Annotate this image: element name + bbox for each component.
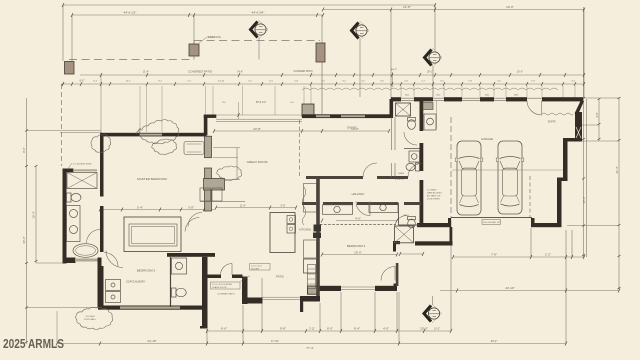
witness vertical x436 entry nook (436, 101, 438, 129)
witness x238 greatroom (238, 102, 240, 119)
window bedroom2 south glass (341, 287, 375, 290)
svg-text:21'-4": 21'-4" (143, 71, 149, 74)
door arc bedroom2 (381, 267, 395, 281)
extension east y125 (582, 124, 599, 126)
witness x392 band (392, 72, 394, 87)
dim line right vertical second (586, 99, 588, 257)
kitchen counter mid (304, 240, 317, 258)
witness line left y307 (27, 307, 99, 309)
wall garage south east (531, 223, 562, 227)
closet shelving inner (132, 227, 175, 244)
svg-text:44'-6 3/4": 44'-6 3/4" (252, 11, 265, 15)
powder toilet (172, 288, 177, 297)
wall bath southwest jog (63, 258, 76, 264)
bath2 sink east (380, 204, 386, 210)
svg-text:12'-2: 12'-2 (126, 81, 132, 83)
svg-text:5'-8 x 9'-2: 5'-8 x 9'-2 (395, 179, 405, 181)
dashed kitchen divider (299, 120, 301, 176)
window hatch dining north 1 (316, 115, 330, 117)
dashed property line left (61, 84, 63, 166)
window hatch master north (140, 134, 162, 136)
extension south x531 (530, 228, 532, 257)
wall kitchen east (316, 177, 320, 296)
ticks top dim (62, 3, 585, 17)
svg-text:5'-8": 5'-8" (281, 205, 286, 208)
svg-text:16'-0": 16'-0" (506, 5, 514, 9)
wall master west seg1 (100, 134, 104, 197)
svg-text:A/C PADS ON: A/C PADS ON (427, 195, 441, 198)
window hatch laundry south (120, 306, 180, 308)
door arc bath interior (404, 132, 417, 145)
bath lower toilet (416, 163, 420, 171)
witness line master y132 (60, 132, 102, 134)
dim line left vertical outer (26, 98, 28, 344)
bath lower sink cabinet (409, 151, 420, 162)
svg-text:PATIO: PATIO (276, 275, 284, 279)
wall garage east lower (557, 181, 562, 227)
garage door label box (482, 220, 501, 225)
wall bedroom2 east (396, 263, 399, 286)
svg-text:40'-2": 40'-2" (491, 339, 498, 343)
svg-text:12'-0 x 8'-0 SLIDING: 12'-0 x 8'-0 SLIDING (212, 284, 232, 286)
svg-text:3'-8": 3'-8" (188, 206, 194, 210)
wall master west seg3 (100, 266, 104, 307)
dashed garage interior line (529, 176, 531, 218)
dim line patio band lower (61, 83, 584, 85)
svg-text:16x16 COL.: 16x16 COL. (208, 35, 222, 39)
wall mech south (415, 241, 453, 245)
wall block bedroom2 step (308, 286, 319, 294)
witness x101 patio to wall (100, 75, 102, 132)
extension south x207 (206, 329, 208, 344)
extension south x243 (242, 305, 244, 344)
entry threshold squiggle (542, 113, 573, 115)
extension right bottom vertical (565, 230, 567, 343)
interior dim bath y254 (400, 253, 423, 255)
window patio screen glass (262, 297, 300, 299)
compass stem 3 (432, 67, 434, 98)
revision cloud master bedroom (152, 139, 177, 154)
wall bedroom2 south west seg (318, 286, 341, 291)
lintel top wall seg5 (506, 97, 527, 101)
kitchen counter upper (304, 184, 317, 213)
interior dim greatroom vertical (236, 148, 238, 180)
extension south x320 (319, 303, 321, 331)
svg-text:9'-8": 9'-8" (280, 327, 286, 331)
wall patio door east vertical (242, 277, 248, 305)
fireplace block (204, 179, 225, 191)
wall bedroom2 corner up (394, 284, 398, 292)
svg-text:SLIDER: SLIDER (251, 269, 259, 271)
svg-text:24'-10: 24'-10 (218, 81, 225, 83)
svg-text:12'-6": 12'-6" (582, 196, 586, 203)
svg-text:14'-6": 14'-6" (237, 71, 243, 74)
extension east y98 (584, 97, 619, 99)
wall bath north corner (63, 169, 74, 173)
master shower (67, 173, 97, 189)
bath2 vanity east (369, 203, 398, 213)
svg-text:16'-4": 16'-4" (32, 211, 36, 218)
master tub (73, 244, 98, 258)
svg-text:30'-0": 30'-0" (22, 236, 26, 243)
wall patio south step (242, 298, 263, 304)
svg-text:4'-6": 4'-6" (355, 217, 361, 221)
svg-text:11'-0": 11'-0" (240, 205, 246, 208)
wall powder west (170, 257, 172, 307)
interior dim nook y131 (214, 130, 389, 132)
dim line bottom right (440, 290, 619, 292)
wall step x391 (390, 99, 394, 118)
wall breezeway stub (448, 218, 451, 224)
svg-text:12'-2": 12'-2" (351, 127, 359, 131)
wall patio south east (300, 296, 320, 302)
dim line right vertical inner (583, 7, 585, 257)
svg-text:GATE ACCESS: GATE ACCESS (427, 192, 442, 195)
wall garage northeast horizontal (563, 138, 582, 142)
powder vanity (172, 258, 187, 274)
svg-text:5'-0 WIDE: 5'-0 WIDE (427, 190, 437, 192)
ticks bottom overall (56, 342, 567, 346)
label patio box 2 (250, 264, 271, 271)
ticks garage south dim (452, 255, 585, 259)
witness verticals master north windows (140, 86, 162, 132)
dashed patio roof step (193, 41, 195, 60)
svg-text:LINEN: LINEN (398, 173, 405, 175)
wall breezeway south (417, 223, 451, 227)
closet outline (124, 217, 181, 252)
wall band greatroom west upper (205, 136, 212, 158)
lintel top wall seg3 (444, 97, 462, 101)
svg-text:COAT/LAUNDRY: COAT/LAUNDRY (126, 281, 146, 284)
svg-text:6'-0": 6'-0" (221, 327, 227, 331)
wall toilet room west (398, 203, 400, 225)
bar cabinet 2 (212, 188, 222, 201)
wall bath partition y148 (404, 148, 420, 150)
dim line greatroom y115 (214, 114, 302, 116)
mud sink (427, 118, 434, 125)
wall bath west (63, 169, 67, 264)
wall garage east jog (557, 178, 568, 182)
svg-text:5'-4": 5'-4" (137, 206, 143, 210)
svg-text:12'-0 x 8'-0: 12'-0 x 8'-0 (251, 266, 262, 268)
bar cabinet 1 (200, 188, 211, 201)
compass stem 1 (258, 39, 260, 60)
upper bath shower (396, 103, 411, 116)
kitchen counter wavy edge (302, 187, 306, 225)
revision cloud pony wall (76, 307, 113, 329)
bath2 sink west (334, 206, 340, 212)
ticks patio band upper (100, 73, 585, 77)
label sliding door box (211, 282, 241, 289)
extension top x584 (583, 10, 585, 98)
svg-text:2'-2": 2'-2" (545, 253, 551, 257)
svg-text:16'-0": 16'-0" (517, 71, 523, 74)
island sink 2 (287, 225, 296, 234)
island sink 1 (287, 216, 296, 224)
wall bedroom2 south east seg (375, 286, 397, 291)
svg-text:BATH: BATH (403, 214, 409, 217)
svg-text:77'-4": 77'-4" (306, 346, 314, 350)
svg-text:10'-2": 10'-2" (434, 328, 440, 331)
window hatch dining north 2 (341, 115, 365, 117)
master toilet (67, 193, 72, 202)
bath2 vanity west (323, 205, 353, 215)
closet shelving outer (129, 224, 177, 246)
wall master west seg2 (100, 206, 104, 252)
bath2 toilet (408, 217, 416, 220)
extension south x397 (396, 292, 398, 331)
svg-text:ENTRY: ENTRY (548, 121, 556, 124)
wall powder north (167, 253, 215, 257)
wall band greatroom west mid (205, 168, 212, 211)
wall greatroom west lower cap (200, 326, 208, 329)
window wall greatroom north glass (216, 119, 302, 121)
interior dim bedroom2 y254 (322, 254, 397, 256)
extension east y225 (567, 225, 619, 227)
window sill tub (75, 259, 98, 262)
wall sliding door east jamb (232, 275, 243, 279)
svg-text:3'-0": 3'-0" (595, 112, 599, 118)
ticks patio dim (62, 82, 102, 86)
compass stem 4 (432, 296, 434, 305)
witness x57 bottom left (56, 311, 58, 344)
dashed garage west line (450, 117, 452, 219)
dashed patio roof line left (69, 59, 194, 61)
svg-text:21'-8": 21'-8" (403, 5, 411, 9)
extension top x322 (321, 15, 323, 43)
master sink 2 (70, 226, 78, 234)
svg-text:COVERED PATIO: COVERED PATIO (188, 70, 213, 74)
compass symbol 4 (424, 305, 442, 323)
wall jog near bath (393, 241, 400, 244)
svg-text:23'-8": 23'-8" (253, 127, 261, 131)
dashed patio roof line right (194, 40, 320, 42)
extension top x391 (390, 10, 392, 100)
wall greatroom west lower (202, 257, 208, 328)
wall toilet room south (399, 224, 420, 226)
car 1 (455, 141, 483, 215)
shower X bath2 (395, 226, 414, 243)
svg-text:8'-0": 8'-0" (80, 80, 85, 83)
dim line top overall (63, 4, 435, 6)
wall garage east upper (563, 142, 568, 180)
compass symbol 2 (351, 22, 369, 40)
lintel top wall seg1 (391, 97, 401, 101)
wall hall block vertical seg1 (420, 101, 424, 131)
interior dim greatroom y147 (213, 147, 240, 149)
witness verticals great room north (206, 86, 312, 118)
svg-text:44'-10": 44'-10" (505, 286, 514, 290)
extension south x262 (261, 278, 263, 331)
kitchen fridge (304, 259, 317, 273)
svg-text:12x36 RISER: 12x36 RISER (427, 199, 440, 201)
window X block east (576, 127, 581, 138)
wall laundry south (98, 306, 202, 310)
wall east upper (575, 112, 582, 140)
dim line bottom inner (207, 330, 451, 332)
scalloped stucco line front (302, 88, 558, 90)
svg-text:21'-4": 21'-4" (615, 166, 619, 173)
wall sliding door west jamb (204, 275, 221, 279)
wall jog near bath vertical (393, 241, 396, 252)
ticks patio band lower (62, 82, 585, 86)
svg-text:7'-8": 7'-8" (491, 253, 497, 257)
washer (106, 280, 121, 291)
svg-text:35'-5 1/4": 35'-5 1/4" (256, 101, 267, 104)
dim line garage south (453, 256, 584, 258)
witness line left y263 (36, 262, 64, 264)
svg-text:8'-0": 8'-0" (22, 147, 26, 153)
door arc hall east (408, 164, 422, 178)
door arc mud (395, 216, 408, 229)
lintel top wall seg4 (480, 97, 494, 101)
extension top x194 (193, 15, 195, 44)
wall hall south seg2 (323, 202, 353, 205)
interior dim greatroom y157 (213, 157, 238, 159)
svg-text:HALLWAY: HALLWAY (352, 192, 365, 196)
wall hall south seg3 (357, 202, 398, 205)
svg-text:COVERED PATIO: COVERED PATIO (293, 70, 312, 73)
ticks right vertical (582, 97, 621, 289)
compass stem 2 (359, 40, 361, 98)
window top wall glass line (401, 97, 542, 99)
wall greatroom north stub (204, 115, 217, 118)
powder sink (175, 262, 182, 269)
witness line master y130 (27, 130, 102, 132)
master vanity (67, 206, 81, 242)
ticks left vertical (25, 130, 38, 344)
door arc master bath (87, 230, 101, 244)
window witness verticals top wall (401, 86, 575, 97)
window sill bath north (73, 169, 97, 171)
svg-text:4'-0 HIGH: 4'-0 HIGH (85, 316, 95, 318)
pantry ladder (308, 265, 316, 289)
svg-text:28'-1": 28'-1" (427, 71, 433, 74)
door arc bath2 entry (356, 202, 370, 216)
wall bath east lower (98, 258, 102, 308)
column B callout (199, 37, 216, 43)
extension south x375 (374, 292, 376, 331)
door arc hall west (363, 163, 377, 177)
extension east y141 (582, 140, 619, 142)
svg-text:16x8 OH GAR. DR.: 16x8 OH GAR. DR. (483, 221, 501, 224)
wall mech east (450, 227, 453, 242)
dim line left vertical inner (35, 166, 37, 263)
ticks bottom inner (206, 329, 452, 333)
extension top x63 (62, 5, 64, 61)
kitchen ovens (314, 225, 322, 232)
interior dim bedroom2 y220 (336, 220, 397, 222)
garage witness centerline (452, 169, 563, 171)
wall garage south jog (531, 218, 535, 224)
kitchen island (270, 213, 295, 253)
svg-text:17'-10": 17'-10" (271, 339, 279, 343)
ticks interior closet dim (99, 208, 205, 212)
ticks interior bedroom2 dims (321, 219, 424, 257)
dim line patio band upper (80, 74, 584, 76)
door arc patio slider (221, 264, 233, 276)
wall hall block vertical seg2 (420, 143, 424, 171)
door arc closet (185, 218, 200, 232)
revision cloud bar (217, 166, 242, 180)
patio column B (189, 44, 199, 56)
dim line bottom overall (57, 343, 566, 345)
master niche cabinet (184, 142, 204, 155)
mud vanity (424, 114, 436, 130)
svg-text:4'-0": 4'-0" (383, 327, 389, 331)
revision cloud master west (91, 135, 111, 153)
upper bath toilet (408, 118, 416, 122)
patio column A (65, 62, 75, 75)
revision cloud greatroom wall (136, 120, 179, 144)
svg-text:6'-0": 6'-0" (327, 327, 333, 331)
car 2 (496, 141, 524, 214)
svg-text:4'-0 SLIDING WDW: 4'-0 SLIDING WDW (73, 164, 91, 166)
wall hall block vertical seg3 (420, 180, 424, 223)
compass symbol 3 (424, 49, 442, 67)
interior dim kitchen y207 (216, 207, 296, 209)
wall hall north seg1 (306, 176, 363, 179)
wall patio corner down (300, 296, 303, 312)
wall hall south seg1 (302, 202, 317, 205)
bar counter line (200, 201, 245, 203)
svg-text:KITCHEN: KITCHEN (299, 228, 311, 232)
ticks nook dim (213, 113, 390, 133)
extension south x451 (450, 220, 452, 331)
svg-text:15'-0": 15'-0" (354, 251, 362, 255)
interior dim closet y209 (100, 209, 215, 211)
wall greatroom west vertical upper (204, 115, 208, 136)
label sliding box leader (240, 276, 250, 282)
extension top x72 (71, 15, 73, 61)
svg-text:COVERED PATIO: COVERED PATIO (217, 293, 235, 296)
dim line right vertical outer (618, 98, 620, 290)
dim line top second left (72, 14, 323, 16)
door arc laundry (106, 251, 123, 268)
door arc bedroom3 (104, 253, 118, 267)
door arc entry (527, 101, 542, 116)
wall master north (100, 133, 206, 137)
svg-text:BEDROOM 3: BEDROOM 3 (137, 269, 156, 273)
svg-text:PONY WALL: PONY WALL (84, 318, 97, 321)
master sink 1 (70, 210, 78, 218)
svg-text:44'-6 1/2": 44'-6 1/2" (124, 11, 137, 15)
svg-text:20'-0": 20'-0" (420, 327, 428, 331)
extension south x572 (571, 230, 573, 257)
compass symbol 1 (250, 21, 268, 39)
svg-text:GLASS DOOR: GLASS DOOR (212, 286, 227, 289)
svg-text:2025 ARMLS: 2025 ARMLS (3, 337, 64, 351)
wall hall north seg2 (377, 176, 408, 179)
svg-text:MASTER BEDROOM: MASTER BEDROOM (137, 177, 167, 181)
interior dim greatroom y179 (213, 179, 240, 181)
svg-text:GREAT ROOM: GREAT ROOM (247, 160, 268, 164)
wall bath west double line (392, 117, 396, 177)
dim line right jamb (598, 99, 600, 141)
extension south x341 (340, 292, 342, 331)
pilaster at x302 (302, 104, 314, 117)
svg-text:BEDROOM 2: BEDROOM 2 (347, 244, 366, 248)
ticks bottom right dim (456, 289, 620, 293)
extension south x399 (398, 292, 400, 344)
soffit dashed bedroom2 (320, 224, 396, 226)
svg-text:GARAGE: GARAGE (481, 137, 493, 141)
wall corner chamfer (575, 101, 585, 114)
garage door head (451, 217, 532, 219)
door arc greatroom west (188, 213, 202, 227)
post C extension line (321, 62, 323, 114)
dim line top second right (323, 9, 584, 11)
